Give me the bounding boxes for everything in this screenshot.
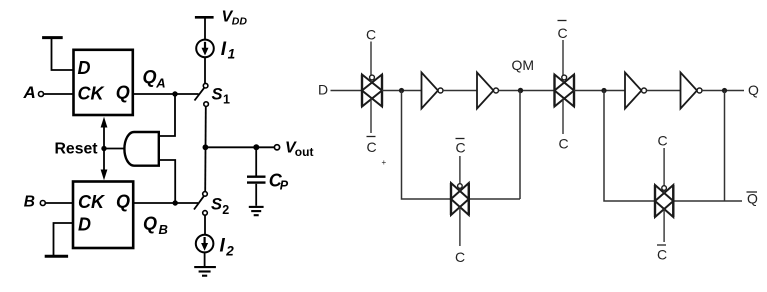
wire TG2 to inverter 3 [574, 90, 625, 92]
inverter INV1 [422, 73, 439, 109]
wire from FF2 D input to tie bar [54, 223, 74, 255]
S1 lever [195, 88, 205, 101]
wire I2 to ground [204, 252, 206, 266]
wire A to FF1 CK [44, 93, 74, 95]
TG4 bubble [662, 186, 667, 191]
wire to Vout [205, 146, 274, 148]
inverter INV4 [681, 73, 698, 109]
wire VDD to I1 [204, 19, 206, 40]
svg-text:CK: CK [78, 192, 106, 212]
wire I1 to S1 [204, 57, 206, 83]
TG3 control line bottom (C) [459, 207, 461, 246]
svg-text:D: D [78, 58, 91, 78]
svg-text:1: 1 [228, 46, 236, 61]
wire INV2 to TG2 [499, 90, 555, 92]
svg-text:A: A [155, 75, 165, 90]
node reset junction dot [101, 146, 106, 151]
svg-text:Reset: Reset [55, 141, 99, 158]
transmission gate TG2 [555, 75, 575, 107]
svg-text:D: D [318, 81, 328, 97]
svg-text:S: S [212, 85, 223, 103]
ground under capacitor [249, 207, 264, 215]
svg-text:Q: Q [143, 214, 157, 234]
switch S2 [203, 192, 208, 197]
node N2 dot [601, 88, 606, 93]
wire capacitor to ground [255, 184, 257, 206]
S2 lever [194, 196, 204, 209]
wire INV4 to Q [702, 90, 744, 92]
terminal circle B [40, 201, 45, 206]
svg-text:C: C [658, 133, 668, 149]
svg-text:+: + [382, 158, 387, 167]
svg-text:1: 1 [223, 93, 230, 107]
wire QA node down to AND gate top input [159, 94, 175, 136]
wire QB from FF2 Q to switch S2 [133, 202, 198, 204]
TG4 control line top (C) [663, 148, 665, 193]
svg-text:2: 2 [225, 243, 234, 258]
wire reset line with arrows into FF1 and FF2 [103, 127, 105, 171]
node QA junction dot [172, 91, 177, 96]
wire AND output to reset line [104, 148, 124, 150]
capacitor CP [247, 175, 266, 177]
svg-text:B: B [159, 222, 168, 237]
VDD supply bar [195, 16, 214, 19]
svg-text:C: C [367, 139, 377, 155]
node N1 dot [399, 88, 404, 93]
svg-text:Q: Q [747, 191, 758, 207]
svg-text:Q: Q [748, 82, 759, 98]
wire from tie bar to FF1 D input [52, 39, 74, 70]
transmission gate TG4 (slave feedback) [655, 185, 673, 217]
svg-text:P: P [280, 178, 289, 192]
svg-text:D: D [78, 214, 91, 234]
wire node to capacitor [255, 147, 257, 176]
feedback wire loop 2 (node N2 down, across, up to Q) [604, 91, 742, 202]
TG2 control line bottom (C) [562, 99, 564, 135]
svg-text:I: I [221, 39, 227, 60]
svg-text:Q: Q [116, 192, 130, 212]
node QB junction dot [173, 200, 178, 205]
wire INV1 to INV2 [443, 90, 477, 92]
transmission gate TG1 [362, 75, 382, 107]
wire QA from FF1 Q to switch S1 [133, 93, 199, 95]
TG4 control line bottom (C-bar) [663, 209, 665, 242]
terminal circle A [39, 92, 44, 97]
current source I1 [196, 40, 214, 58]
node QM dot [518, 88, 523, 93]
transmission gate TG3 (master feedback) [451, 183, 469, 215]
flip-flop FF2 (bottom D flip-flop) [73, 182, 133, 249]
terminal Vout circle [274, 145, 279, 150]
TG2 control line top (C-bar) [562, 40, 564, 83]
wire D to TG1 [331, 90, 363, 92]
svg-text:2: 2 [222, 203, 229, 217]
svg-text:QM: QM [512, 57, 535, 73]
svg-text:B: B [24, 194, 35, 211]
svg-text:C: C [558, 25, 568, 41]
wire TG1 to inverter 1 [382, 90, 422, 92]
node capacitor junction dot [253, 144, 259, 150]
svg-text:CK: CK [78, 84, 106, 104]
svg-text:C: C [455, 249, 465, 265]
FF1 D tie-high bar [42, 38, 73, 70]
inverter INV3 [625, 73, 642, 109]
wire INV3 to INV4 [647, 90, 681, 92]
svg-text:C: C [366, 27, 376, 43]
feedback wire loop 1 (node N1 down, across, up to QM) [402, 91, 521, 200]
svg-text:C: C [657, 247, 667, 263]
ground under I2 [194, 267, 216, 276]
TG3 bubble [458, 184, 463, 189]
middle rail wire S1 to S2 [204, 106, 207, 191]
TG1 control line bottom (C-bar) [370, 99, 372, 134]
TG2 bubble [562, 75, 567, 80]
TG1 bubble [370, 75, 375, 80]
svg-text:out: out [295, 145, 314, 159]
TG1 control line top (C) [370, 42, 372, 83]
svg-text:A: A [23, 83, 36, 102]
FF2 D tie-high bar [45, 223, 73, 256]
node Q dot [722, 88, 727, 93]
flip-flop FF1 (top D flip-flop) [74, 50, 133, 115]
wire B to FF2 CK [45, 202, 73, 204]
inverter INV2 [477, 73, 494, 109]
svg-text:C: C [456, 140, 466, 156]
wire S2 to I2 [204, 215, 206, 235]
wire QB node up to AND gate bottom input [159, 160, 175, 203]
svg-text:Q: Q [116, 82, 130, 102]
svg-text:C: C [559, 136, 569, 152]
TG3 control line top (C-bar) [459, 156, 461, 191]
svg-text:DD: DD [232, 16, 248, 28]
svg-text:I: I [220, 236, 226, 257]
svg-text:Q: Q [143, 67, 157, 87]
current source I2 [196, 235, 214, 253]
svg-text:S: S [211, 196, 222, 214]
node output junction dot [203, 144, 209, 150]
AND gate (reset, left-facing) [124, 132, 158, 166]
switch S1 [203, 83, 208, 88]
